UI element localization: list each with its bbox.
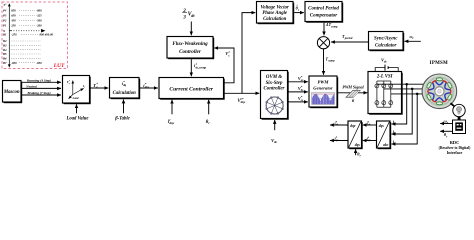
- svg-text:B3: B3: [2, 43, 7, 47]
- svg-text:IPMSM: IPMSM: [430, 61, 448, 66]
- svg-text:-850: -850: [36, 61, 42, 65]
- svg-text:dq: dq: [123, 83, 127, 87]
- svg-text:dqs: dqs: [169, 121, 174, 125]
- svg-text:B1: B1: [2, 33, 7, 37]
- svg-text:samp: samp: [327, 58, 335, 62]
- svg-text:comp: comp: [331, 24, 338, 28]
- svg-text:e: e: [69, 83, 70, 85]
- svg-text:dqe: dqe: [350, 124, 356, 128]
- svg-text:2-L VSI: 2-L VSI: [376, 75, 393, 80]
- svg-text:Calculation: Calculation: [113, 91, 137, 96]
- svg-text:Interface: Interface: [447, 150, 463, 155]
- svg-text:850: 850: [11, 9, 16, 13]
- svg-text:dqs: dqs: [355, 143, 361, 147]
- svg-text:Six-Step: Six-Step: [266, 81, 283, 86]
- svg-text:OVM &: OVM &: [266, 75, 282, 80]
- svg-text:LUT: LUT: [53, 63, 65, 69]
- svg-text:β-Table: β-Table: [114, 116, 129, 121]
- svg-text:Load: Load: [72, 97, 80, 100]
- svg-text:Mascon: Mascon: [3, 90, 20, 95]
- svg-text:Current Controller: Current Controller: [169, 86, 213, 92]
- svg-text:Sync/Async: Sync/Async: [374, 36, 398, 41]
- svg-text:abc: abc: [383, 143, 389, 147]
- svg-text:B7: B7: [2, 61, 7, 65]
- svg-text:650: 650: [11, 14, 16, 18]
- svg-text:Controller: Controller: [264, 87, 285, 92]
- svg-text:dqs: dqs: [145, 85, 150, 89]
- svg-text:-325: -325: [36, 14, 42, 18]
- svg-text:-800: -800: [36, 9, 42, 13]
- svg-text:Flux-Weakening: Flux-Weakening: [172, 41, 208, 47]
- svg-text:P3: P3: [3, 14, 7, 18]
- svg-text:period: period: [344, 36, 353, 40]
- svg-text:3: 3: [182, 15, 186, 21]
- svg-text:Control Period: Control Period: [308, 6, 339, 11]
- svg-text:-200: -200: [36, 23, 42, 27]
- svg-text:s: s: [83, 87, 85, 89]
- svg-text:dc: dc: [191, 13, 195, 18]
- svg-text:Calculation: Calculation: [263, 17, 287, 22]
- svg-text:RDC: RDC: [450, 140, 460, 145]
- svg-text:PWM Signal: PWM Signal: [342, 84, 364, 89]
- svg-text:dc: dc: [274, 140, 278, 144]
- svg-text:-250: -250: [11, 33, 17, 37]
- svg-text:dqs: dqs: [379, 124, 385, 128]
- svg-text:Load Value: Load Value: [65, 116, 88, 121]
- svg-text:PWM: PWM: [318, 79, 330, 84]
- svg-text:Phase Angle: Phase Angle: [262, 11, 288, 16]
- svg-text:-850: -850: [11, 61, 17, 65]
- svg-text:P2: P2: [3, 19, 7, 23]
- svg-text:Controller: Controller: [179, 49, 202, 55]
- svg-text:^: ^: [296, 3, 298, 7]
- svg-text:Compensator: Compensator: [310, 14, 338, 19]
- svg-text:Voltage Vector: Voltage Vector: [261, 5, 290, 10]
- svg-text:450: 450: [10, 19, 16, 23]
- svg-text:P4: P4: [3, 9, 7, 13]
- svg-text:2: 2: [182, 8, 186, 14]
- svg-text:P1: P1: [3, 23, 7, 27]
- svg-text:250: 250: [10, 23, 16, 27]
- svg-text:dqs: dqs: [241, 100, 246, 104]
- svg-text:ds,comp: ds,comp: [196, 65, 207, 69]
- svg-text:B6: B6: [2, 56, 7, 60]
- svg-text:Calculator: Calculator: [375, 43, 397, 48]
- svg-text:800 600.00: 800 600.00: [40, 33, 54, 37]
- svg-text:-500: -500: [36, 19, 42, 23]
- svg-text:Generator: Generator: [313, 85, 333, 90]
